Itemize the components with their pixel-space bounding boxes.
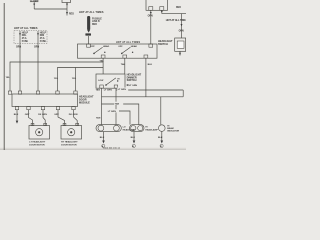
svg-text:HEAD: HEAD <box>131 45 138 48</box>
svg-text:SWITCH: SWITCH <box>158 43 168 46</box>
svg-text:TAN: TAN <box>115 103 120 106</box>
svg-text:25 A: 25 A <box>22 37 27 40</box>
svg-text:RED: RED <box>92 24 97 26</box>
svg-text:HOT AT ALL TIMES: HOT AT ALL TIMES <box>116 41 140 44</box>
svg-text:INDICATOR: INDICATOR <box>167 130 179 133</box>
svg-text:BEAM: BEAM <box>167 127 174 130</box>
svg-text:HEADLAMP: HEADLAMP <box>123 128 136 131</box>
svg-text:DRL: DRL <box>22 35 27 37</box>
svg-text:ORN: ORN <box>16 46 21 48</box>
svg-text:LO: LO <box>123 127 126 129</box>
svg-text:HEADLAMP: HEADLAMP <box>145 128 158 131</box>
svg-text:LT GRN: LT GRN <box>118 89 126 91</box>
svg-text:RED: RED <box>176 7 181 9</box>
svg-text:BLK: BLK <box>14 114 19 116</box>
svg-text:LT GRN: LT GRN <box>104 89 112 91</box>
svg-text:GRY: GRY <box>54 114 59 116</box>
svg-text:1993 8W-100-12: 1993 8W-100-12 <box>103 148 121 150</box>
svg-text:BLK: BLK <box>100 137 105 139</box>
svg-text:FUSE: FUSE <box>22 41 29 43</box>
svg-text:GRY: GRY <box>25 114 30 116</box>
svg-text:LT GRN: LT GRN <box>129 85 137 87</box>
svg-text:25 A: 25 A <box>40 37 45 40</box>
svg-text:LINK B: LINK B <box>92 21 100 23</box>
svg-text:HOT AT ALL TIME: HOT AT ALL TIME <box>166 18 186 22</box>
svg-text:YEL: YEL <box>100 60 105 62</box>
svg-text:YEL: YEL <box>6 77 11 79</box>
svg-text:DIM: DIM <box>40 35 44 37</box>
svg-text:HOT AT ALL TIMES: HOT AT ALL TIMES <box>79 10 104 14</box>
svg-text:YEL: YEL <box>54 78 59 80</box>
svg-text:TAN: TAN <box>96 116 101 119</box>
svg-text:DOOR MOTOR: DOOR MOTOR <box>61 144 77 146</box>
svg-text:RED: RED <box>69 13 74 15</box>
svg-text:SWITCH: SWITCH <box>127 79 137 82</box>
svg-text:TAN: TAN <box>121 63 126 66</box>
svg-text:ORN: ORN <box>179 31 184 33</box>
svg-text:BLK: BLK <box>131 137 136 139</box>
svg-text:BLK: BLK <box>148 64 153 66</box>
svg-text:HDLP: HDLP <box>22 32 29 34</box>
svg-text:DK GRN: DK GRN <box>69 114 78 116</box>
svg-text:HI: HI <box>145 127 148 129</box>
svg-text:LT HEADLIGHT: LT HEADLIGHT <box>29 141 46 144</box>
svg-text:LT GRN: LT GRN <box>108 111 116 113</box>
svg-text:DK GRN: DK GRN <box>38 114 47 116</box>
svg-text:RT HEADLIGHT: RT HEADLIGHT <box>61 141 78 144</box>
svg-text:FUSE: FUSE <box>40 41 47 43</box>
svg-text:A RED: A RED <box>31 0 38 3</box>
svg-text:ORN: ORN <box>148 16 153 18</box>
svg-text:FUSIBLE: FUSIBLE <box>92 18 102 20</box>
svg-text:ORN: ORN <box>34 46 39 48</box>
svg-text:OFF: OFF <box>118 46 123 48</box>
svg-text:MODULE: MODULE <box>79 101 90 104</box>
svg-text:HDLP: HDLP <box>40 32 47 34</box>
svg-text:TAN: TAN <box>96 88 101 91</box>
svg-text:HEAD: HEAD <box>103 45 110 48</box>
svg-text:OFF: OFF <box>90 46 95 48</box>
svg-text:YEL: YEL <box>72 78 77 80</box>
svg-text:HOT AT ALL TIMES: HOT AT ALL TIMES <box>14 26 38 30</box>
svg-text:BLK: BLK <box>158 137 163 139</box>
svg-text:DOOR MOTOR: DOOR MOTOR <box>29 144 45 146</box>
